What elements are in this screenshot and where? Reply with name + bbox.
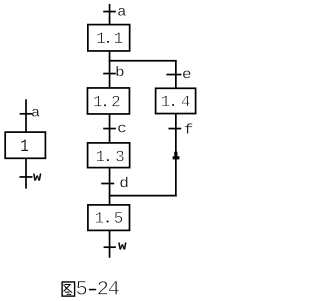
label 1.4 (162, 96, 190, 107)
transition tick d (101, 183, 114, 185)
label 1.3 (97, 151, 124, 162)
transition tick f (168, 128, 181, 130)
label b (116, 66, 123, 76)
wire: main vertical above box 1.1 (109, 4, 111, 25)
wire: selection branch horizontal (109, 60, 177, 62)
step box 1.3 (88, 143, 130, 168)
label e (183, 71, 191, 79)
transition tick w (main bottom) (104, 246, 116, 248)
caption text 5-24 (77, 281, 119, 295)
arrow head (upward) on right branch wire (173, 152, 180, 160)
wire: left branch vertical below box 1 (25, 158, 27, 188)
label 1.2 (94, 96, 119, 107)
wire: main vertical below box 1.5 (109, 230, 111, 257)
transition tick a (left branch) (20, 113, 33, 115)
step box 1.2 (87, 88, 129, 114)
label w (left branch) (33, 174, 41, 181)
wire: branch line down to box 1.2 (109, 61, 111, 88)
label 1.5 (96, 212, 123, 223)
label f (185, 123, 193, 133)
transition tick b (103, 73, 116, 75)
step box 1.4 (156, 88, 196, 113)
transition tick w (left branch) (20, 176, 33, 178)
label 1 (in box 1) (21, 140, 28, 151)
transition tick e (166, 74, 181, 76)
wire: main vertical box 1.1 to branch line (109, 51, 111, 61)
label w (main bottom) (118, 243, 126, 250)
label d (120, 177, 127, 188)
wire: main vertical box 1.3 to box 1.5 (109, 168, 111, 205)
wire: right branch vertical below box 1.4 to merge (175, 114, 177, 197)
wire: merge horizontal (109, 195, 177, 197)
label a (main top) (118, 8, 126, 16)
step box 1.1 (88, 25, 130, 51)
wire: right branch vertical down to box 1.4 (175, 61, 177, 89)
caption hanzi TU (drawn strokes) (62, 282, 75, 296)
label 1.1 (97, 32, 122, 43)
label a (left branch) (32, 109, 40, 117)
label c (118, 125, 125, 133)
transition tick a (main top) (103, 11, 116, 13)
step box 1.5 (88, 205, 130, 231)
wire: left branch vertical above box 1 (25, 99, 27, 132)
step box 1 (5, 132, 45, 158)
transition tick c (103, 128, 116, 130)
wire: main vertical box 1.2 to box 1.3 (109, 114, 111, 143)
